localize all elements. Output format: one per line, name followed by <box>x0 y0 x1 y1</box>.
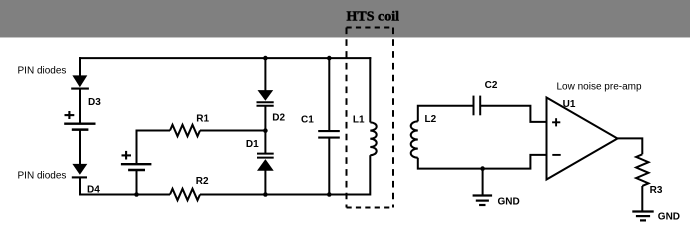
svg-text:D4: D4 <box>87 185 100 196</box>
junction top bus at D2 branch <box>263 56 268 61</box>
wire R1 left lead <box>137 130 171 132</box>
svg-text:PIN diodes: PIN diodes <box>18 171 67 182</box>
svg-text:GND: GND <box>498 196 520 207</box>
ground GND left <box>473 196 493 206</box>
diode D4 <box>72 164 88 178</box>
wire bottom bus left <box>79 194 170 196</box>
wire B1 to D4 <box>79 130 81 165</box>
diode D2 <box>257 90 274 106</box>
wire top bus <box>79 57 371 59</box>
wire GND tap drop <box>482 169 484 196</box>
junction bottom bus at C1 branch <box>327 192 332 197</box>
op-amp U1 <box>547 98 618 180</box>
capacitor C2 <box>474 96 481 116</box>
resistor R3 <box>636 154 648 186</box>
svg-text:R2: R2 <box>196 176 209 187</box>
svg-text:HTS coil: HTS coil <box>347 10 400 25</box>
inductor L1 <box>370 122 376 155</box>
junction GND tap <box>480 166 485 171</box>
wire L1 to bottom bus <box>369 155 371 195</box>
wire mid node to D1 <box>264 131 266 154</box>
HTS coil dashed enclosure <box>347 28 394 208</box>
wire R1 node to battery B2 <box>136 130 138 165</box>
svg-text:D1: D1 <box>246 139 259 150</box>
diode D1 <box>257 154 274 171</box>
wire top bus to C1 <box>328 58 330 130</box>
wire op-amp output to R3 <box>618 138 643 154</box>
wire top bus to D2 <box>264 58 266 91</box>
svg-text:PIN diodes: PIN diodes <box>18 66 67 77</box>
capacitor C1 <box>318 131 340 138</box>
wire D2 to mid node <box>264 106 266 131</box>
svg-text:GND: GND <box>658 211 680 222</box>
battery B1 <box>64 111 95 130</box>
svg-text:U1: U1 <box>563 99 576 110</box>
svg-text:L2: L2 <box>425 114 437 125</box>
wire B2 to bottom bus <box>136 170 138 195</box>
diode D3 <box>71 75 89 88</box>
wire D1 to bottom bus <box>264 170 266 195</box>
svg-text:D3: D3 <box>88 97 101 108</box>
wire bottom bus right <box>200 194 371 196</box>
svg-text:R1: R1 <box>196 113 209 124</box>
header gray bar <box>0 0 690 37</box>
svg-text:R3: R3 <box>650 185 663 196</box>
resistor R2 <box>170 189 200 200</box>
inductor L2 <box>411 121 418 157</box>
wire R3 to ground <box>641 186 643 212</box>
svg-text:C1: C1 <box>301 114 314 125</box>
svg-text:L1: L1 <box>353 115 365 126</box>
svg-text:D2: D2 <box>272 112 285 123</box>
svg-text:Low noise pre-amp: Low noise pre-amp <box>557 81 642 92</box>
wire left branch top segment <box>79 57 81 76</box>
wire R1 right lead <box>200 130 265 132</box>
wire L2 top lead to C2 <box>418 106 473 122</box>
wire L2 bottom lead to op-amp minus input <box>418 155 546 169</box>
junction bottom bus at D1 branch <box>263 192 268 197</box>
svg-text:C2: C2 <box>485 80 498 91</box>
junction mid node R1/D1/D2 <box>263 128 268 133</box>
wire top bus into coil box <box>369 57 371 122</box>
ground GND right <box>632 212 653 221</box>
wire C1 to bottom bus <box>328 138 330 195</box>
wire D4 to bottom bus <box>79 177 81 195</box>
resistor R1 <box>170 125 200 136</box>
wire C2 to op-amp plus input <box>481 106 546 122</box>
battery B2 <box>121 151 151 170</box>
wire D3 to battery B1 <box>79 88 81 123</box>
junction top bus at C1 branch <box>327 56 332 61</box>
junction B2 bottom <box>134 192 139 197</box>
